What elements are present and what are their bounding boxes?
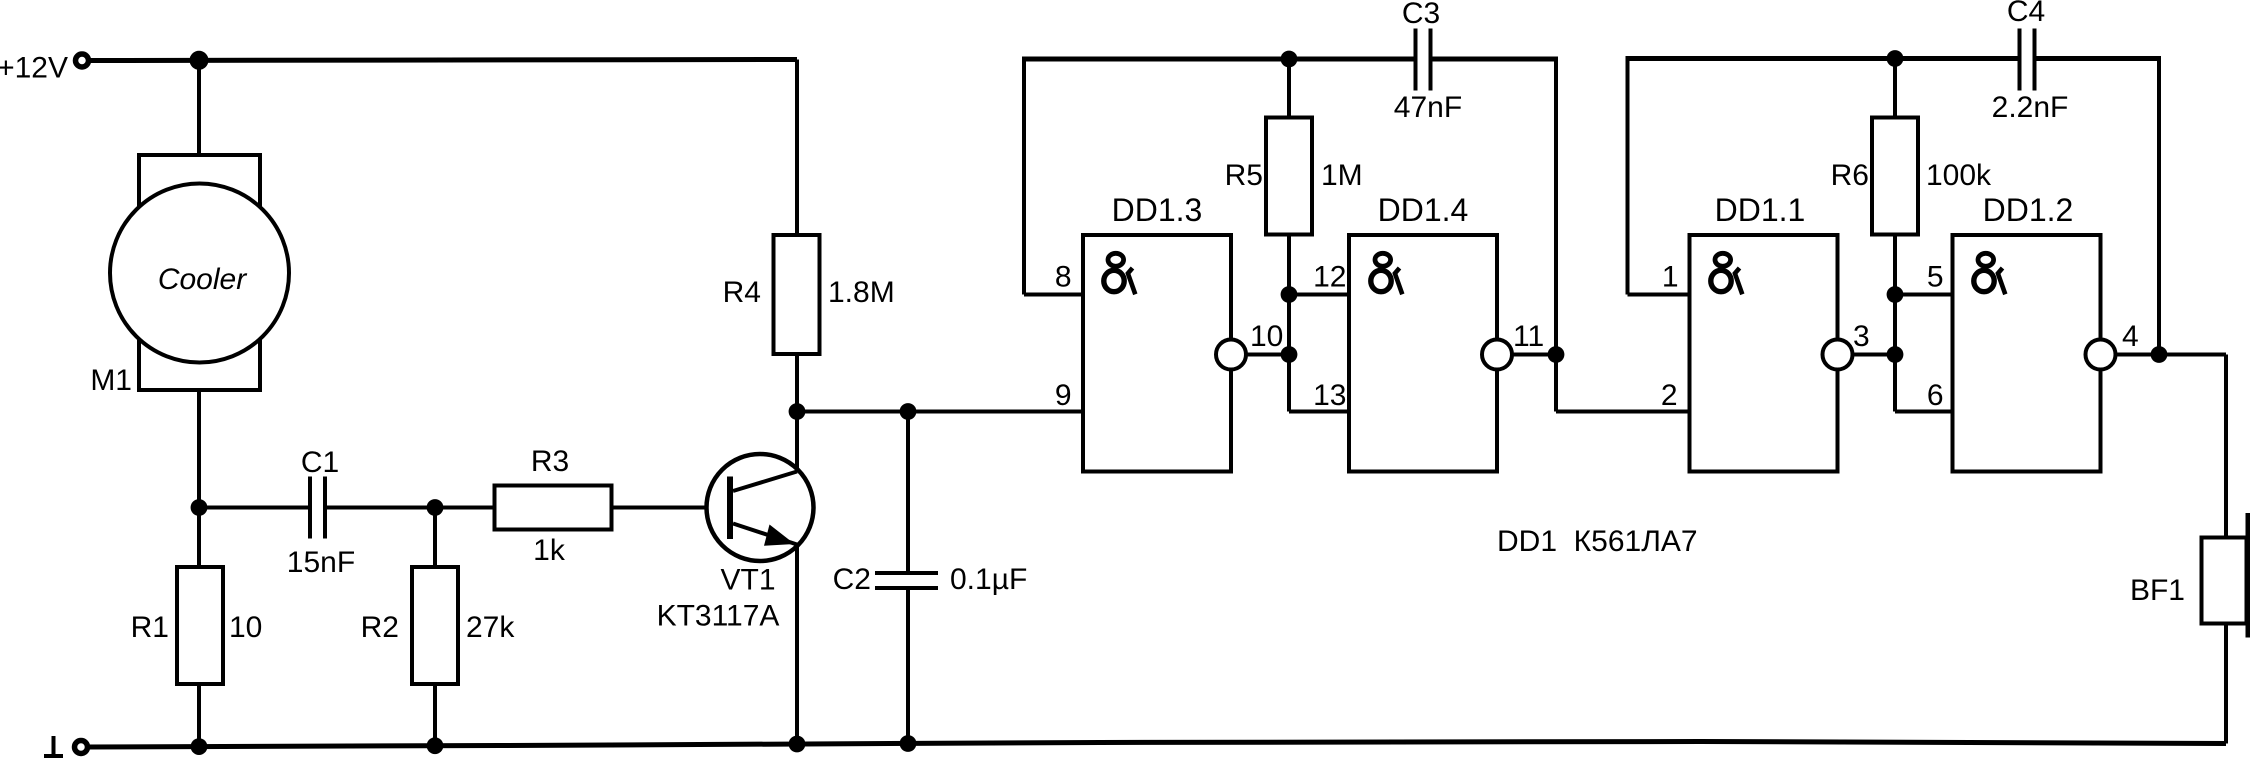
wire pin 12 lead [1289,293,1349,297]
buzzer BF1 piezo plate [2246,513,2250,638]
capacitor C4 [2018,29,2022,91]
wire R4 top lead from rail [795,60,799,236]
capacitor C2 [875,571,938,575]
transistor VT1 [707,454,814,561]
wire C2 top lead [906,412,910,574]
wire feedback right vertical DD1.2 output [2157,56,2161,355]
svg-text:DD1.4: DD1.4 [1378,192,1469,228]
terminal ground [75,741,88,754]
wire output 11 to pin 2 [1556,410,1690,414]
node C2 ground junction [900,735,917,752]
svg-text:6: 6 [1927,379,1944,412]
svg-text:4: 4 [2122,320,2139,353]
gate DD1.3 output bubble [1216,340,1246,370]
svg-text:2.2nF: 2.2nF [1992,91,2069,124]
svg-text:1k: 1k [533,534,566,567]
node output 4 junction [2151,346,2168,363]
gate DD1.3 AND symbol [1104,253,1136,294]
svg-text:DD1 К561ЛА7: DD1 К561ЛА7 [1497,525,1698,558]
resistor R5 [1266,118,1312,235]
svg-text:12: 12 [1313,261,1346,294]
node R1 ground junction [191,738,208,755]
svg-text:R6: R6 [1831,159,1869,192]
gate DD1.4 AND symbol [1371,253,1403,294]
wire motor top lead [197,60,201,156]
gate DD1.1 AND symbol [1711,253,1743,294]
wire C2 bottom lead [906,588,910,744]
svg-text:VT1: VT1 [720,564,775,597]
wire VT1 emitter lead [795,545,799,745]
resistor R2 [412,567,458,684]
wire VT1 collector lead [795,412,799,472]
svg-text:10: 10 [1250,320,1283,353]
wire pin 1 lead [1628,293,1690,297]
motor M1 body [139,155,260,390]
wire output 11 stub [1512,353,1556,357]
svg-text:BF1: BF1 [2130,574,2185,607]
svg-text:C2: C2 [833,563,871,596]
resistor R3 [495,486,612,530]
svg-text:27k: 27k [466,611,515,644]
node R2 ground junction [427,737,444,754]
gate DD1.3 body [1083,235,1231,472]
node C2 top junction [900,403,917,420]
capacitor C3 [1414,29,1418,91]
wire R3 left lead [435,506,495,510]
wire top rail gate pair DD1.3/DD1.4 right of C3 [1433,57,1557,62]
capacitor C1 [308,477,312,539]
wire R6 top lead [1893,59,1897,118]
wire pin 8 lead [1024,293,1083,297]
wire output 4 stub [2116,353,2160,357]
wire R5 top lead [1287,59,1291,118]
svg-text:100k: 100k [1926,159,1992,192]
svg-text:C4: C4 [2007,0,2045,28]
svg-text:11: 11 [1513,320,1544,353]
svg-text:R4: R4 [723,276,761,309]
wire R4 bottom lead [795,354,799,412]
wire R6 bottom vertical through pins 5/3/6 [1893,235,1897,412]
gate DD1.4 body [1349,235,1497,472]
gate DD1.4 output bubble [1482,340,1512,370]
node motor/R1/C1 junction [191,499,208,516]
wire top rail gate pair DD1.1/DD1.2 left of C4 [1628,56,2019,61]
svg-text:15nF: 15nF [287,546,355,579]
ground symbol [52,736,56,756]
gate DD1.1 output bubble [1823,340,1853,370]
node collector/R4 junction [789,403,806,420]
wire R1 bottom lead [197,684,201,747]
svg-text:1: 1 [1662,261,1679,294]
gate DD1.1 body [1690,235,1838,472]
svg-text:R1: R1 [131,611,169,644]
svg-text:3: 3 [1853,320,1870,353]
svg-text:C1: C1 [301,446,339,479]
wire pin 6 lead [1895,410,1953,414]
node output 3 junction [1887,346,1904,363]
svg-text:+12V: +12V [0,52,68,85]
terminal +12V input [76,54,89,67]
wire pin 13 lead [1289,410,1349,414]
wire R1 top lead [197,508,201,568]
svg-text:R5: R5 [1225,159,1263,192]
svg-text:47nF: 47nF [1394,91,1462,124]
wire ground rail [85,742,2226,748]
gate DD1.2 AND symbol [1974,253,2006,294]
wire feedback left vertical to pin 8 [1022,57,1026,295]
wire C1 left lead [199,506,308,510]
motor M1 circle [110,184,289,363]
wire top rail gate pair DD1.3/DD1.4 left of C3 [1024,57,1414,62]
node pin 12 junction [1281,286,1298,303]
node +12V junction to motor [190,51,209,70]
wire R5 bottom vertical through pins 12/10/13 [1287,235,1291,412]
svg-text:5: 5 [1927,261,1944,294]
wire feedback left vertical to pin 1 [1626,56,1630,295]
wire feedback right vertical DD1.4 output [1554,57,1558,412]
buzzer BF1 body [2202,538,2247,624]
svg-text:Cooler: Cooler [158,263,247,296]
resistor R6 [1872,118,1918,235]
svg-text:10: 10 [229,611,262,644]
svg-text:0.1µF: 0.1µF [950,563,1027,596]
svg-text:1.8M: 1.8M [828,276,895,309]
svg-text:DD1.1: DD1.1 [1715,192,1806,228]
node VT1 emitter ground junction [789,736,806,753]
wire collector node to pin 9 [797,410,1083,414]
gate DD1.2 output bubble [2086,340,2116,370]
wire R2 top lead [433,508,437,568]
wire output 4 to BF1 horizontal [2159,353,2226,357]
wire +12V power rail [86,60,797,61]
resistor R1 [177,567,223,684]
svg-text:1M: 1M [1321,159,1363,192]
wire pin 5 lead [1895,293,1953,297]
svg-text:KT3117A: KT3117A [657,600,780,633]
node R6 top rail junction [1887,50,1904,67]
svg-text:R3: R3 [531,445,569,478]
wire R2 bottom lead [433,684,437,746]
wire output 10 stub [1246,353,1289,357]
svg-text:C3: C3 [1402,0,1440,30]
gate DD1.2 body [1953,235,2101,472]
svg-text:8: 8 [1055,261,1072,294]
node pin 5 junction [1887,286,1904,303]
node C1/R2/R3 junction [427,499,444,516]
wire output 3 stub [1853,353,1896,357]
svg-text:R2: R2 [361,611,399,644]
wire top rail gate pair DD1.1/DD1.2 right of C4 [2037,56,2160,61]
node output 10 junction [1281,346,1298,363]
wire R3 to VT1 base [612,506,731,510]
wire BF1 bottom lead [2224,624,2228,744]
svg-text:9: 9 [1055,379,1072,412]
node output 11 junction [1548,346,1565,363]
svg-text:DD1.3: DD1.3 [1112,192,1203,228]
svg-text:2: 2 [1661,379,1678,412]
wire motor bottom lead [197,390,201,508]
wire C1 right lead [327,506,435,510]
node R5 top rail junction [1281,51,1298,68]
resistor R4 [774,235,820,354]
svg-text:13: 13 [1313,379,1346,412]
svg-text:DD1.2: DD1.2 [1983,192,2074,228]
wire BF1 top lead [2224,355,2228,538]
svg-text:M1: M1 [90,364,132,397]
